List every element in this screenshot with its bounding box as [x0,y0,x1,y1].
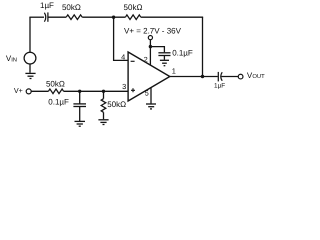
svg-text:0.1µF: 0.1µF [48,98,69,107]
svg-text:50kΩ: 50kΩ [124,3,143,12]
svg-text:2: 2 [144,55,148,64]
svg-text:V+: V+ [14,86,23,95]
svg-text:0.1µF: 0.1µF [172,48,193,57]
svg-text:50kΩ: 50kΩ [107,100,126,109]
svg-text:3: 3 [122,82,126,91]
svg-text:1µF: 1µF [214,83,225,90]
svg-text:IN: IN [11,57,17,63]
svg-text:50kΩ: 50kΩ [62,3,81,12]
svg-text:V+ = 2.7V - 36V: V+ = 2.7V - 36V [124,26,182,35]
svg-text:1: 1 [172,67,176,76]
svg-text:1µF: 1µF [40,1,54,10]
svg-text:OUT: OUT [252,73,265,80]
svg-text:5: 5 [145,88,149,97]
svg-text:4: 4 [121,53,125,62]
svg-text:50kΩ: 50kΩ [46,79,65,88]
